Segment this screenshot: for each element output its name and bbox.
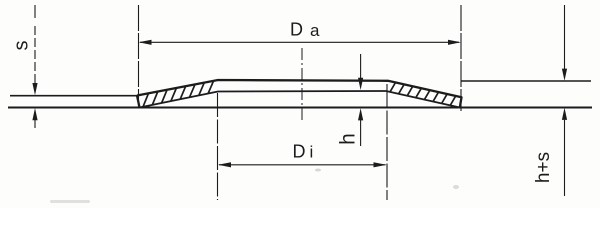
baseline (bottom reference line) — [8, 107, 592, 109]
Di right extension line — [386, 84, 388, 200]
left thickness reference line (top of outer rim, extended left) — [10, 95, 137, 97]
svg-text:i: i — [310, 143, 314, 162]
Da right extension line — [460, 5, 462, 111]
hatching of left cross-section — [143, 81, 214, 107]
hatching of right cross-section — [390, 83, 456, 106]
Di left arrowhead — [218, 162, 231, 167]
Da dimension line — [140, 41, 459, 43]
h dimension upper line with down arrow — [360, 54, 362, 78]
centerline (axis, dash-dot) — [301, 48, 303, 122]
h+s top extension line — [461, 80, 591, 82]
Di left extension line — [217, 93, 219, 200]
Di dimension line — [219, 164, 386, 166]
scan speck center bottom — [315, 169, 321, 172]
h+s lower line with up arrow — [564, 120, 566, 196]
scan speck right bottom — [453, 185, 459, 189]
h dimension lower line with up arrow — [360, 120, 362, 146]
disc spring left outer rim edge — [137, 96, 140, 108]
Di right arrowhead — [374, 162, 387, 167]
scan smudge bottom left — [50, 200, 90, 203]
svg-text:h+s: h+s — [533, 152, 554, 183]
s dimension upper line with down arrow — [34, 5, 36, 18]
s dimension lower line with up arrow — [34, 120, 36, 128]
Da right arrowhead — [448, 40, 461, 45]
Da left arrowhead — [139, 40, 152, 45]
svg-text:s: s — [11, 41, 33, 51]
svg-text:a: a — [310, 21, 320, 40]
svg-text:D: D — [290, 20, 303, 40]
disc spring top outline (left slope, mid surface, right slope) — [137, 80, 462, 108]
h+s upper line with down arrow — [564, 5, 566, 69]
disc spring bottom inner outline — [140, 91, 460, 108]
Da left extension line — [138, 5, 140, 107]
svg-text:D: D — [293, 142, 306, 162]
svg-text:h: h — [337, 133, 360, 145]
